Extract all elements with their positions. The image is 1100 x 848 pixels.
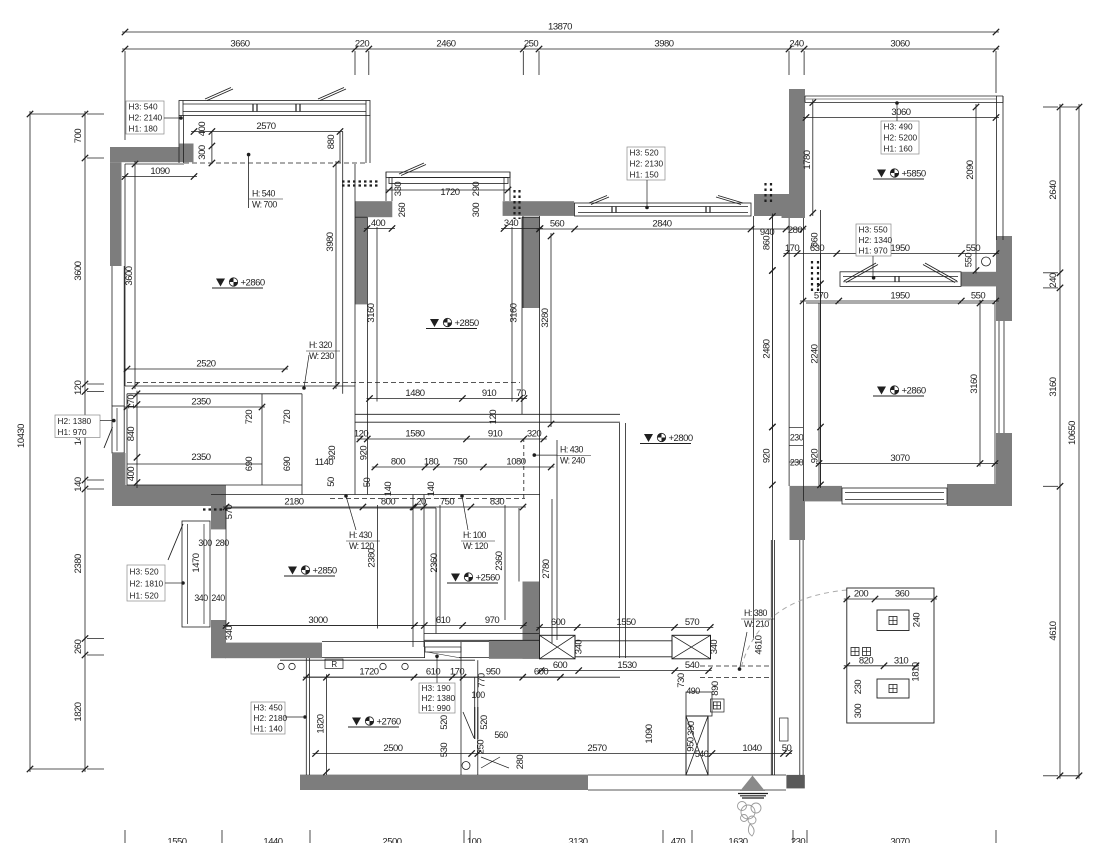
svg-text:170: 170 — [450, 667, 465, 678]
svg-text:3160: 3160 — [366, 303, 377, 322]
weak box — [877, 679, 909, 698]
svg-text:+5850: +5850 — [902, 169, 926, 180]
dashed guides entry — [700, 665, 772, 667]
svg-text:240: 240 — [912, 613, 923, 628]
label box B5 H3 550 — [856, 224, 891, 256]
svg-text:H1: 970: H1: 970 — [58, 427, 87, 437]
svg-text:H1: 180: H1: 180 — [129, 124, 158, 134]
casement flag room2 — [399, 163, 424, 174]
svg-text:230: 230 — [790, 433, 804, 443]
svg-text:910: 910 — [482, 388, 497, 399]
svg-text:700: 700 — [73, 129, 84, 144]
dim 1720/610/170/950/600 kitchen top — [303, 676, 563, 678]
svg-text:2840: 2840 — [652, 219, 671, 230]
dim 3980 room1 right inner — [335, 161, 337, 389]
study room outline — [435, 508, 437, 634]
wall dots bedroom3 northwest — [203, 508, 228, 510]
svg-text:920: 920 — [359, 446, 370, 461]
kitchen top lines — [280, 659, 475, 661]
svg-text:2350: 2350 — [191, 452, 210, 463]
east wall glazing lower — [998, 321, 1000, 433]
dim 860 rot left of 1950 window — [771, 214, 773, 274]
wall dining south — [489, 640, 539, 659]
dim 2350 x2 — [124, 406, 265, 408]
dim 860 rot right — [820, 210, 822, 270]
svg-text:610: 610 — [436, 615, 451, 626]
dim 170/840/400 left room — [136, 391, 138, 488]
svg-text:770: 770 — [477, 673, 488, 688]
wall left below window — [112, 453, 126, 502]
dim 820/310 panel — [844, 665, 919, 667]
bay window west bedroom3 — [182, 521, 210, 627]
svg-text:13870: 13870 — [548, 22, 572, 33]
dim 170/630/1950/550 line — [784, 253, 1000, 255]
svg-text:+2850: +2850 — [313, 566, 337, 577]
svg-text:2500: 2500 — [383, 743, 402, 754]
dim 2780 corridor lower — [551, 499, 553, 643]
door swing dashed arc — [741, 590, 847, 668]
dim 600/1550/570 — [537, 626, 714, 628]
svg-text:170: 170 — [785, 243, 800, 254]
svg-text:540: 540 — [685, 660, 700, 671]
svg-text:260: 260 — [397, 203, 408, 218]
svg-text:H1: 970: H1: 970 — [859, 246, 888, 256]
svg-text:910: 910 — [488, 429, 503, 440]
label box B7 H3 520 — [127, 565, 165, 601]
svg-text:400: 400 — [126, 467, 137, 482]
svg-text:H2: 1380: H2: 1380 — [422, 693, 456, 703]
svg-text:20: 20 — [416, 497, 426, 508]
svg-text:1550: 1550 — [616, 617, 635, 628]
dim 340 room2 right out — [501, 228, 543, 230]
svg-text:340: 340 — [709, 640, 720, 655]
svg-text:1720: 1720 — [440, 187, 459, 198]
svg-text:230: 230 — [790, 458, 804, 468]
small circle near east wall — [982, 257, 991, 266]
living north window 2840 — [575, 203, 752, 216]
svg-text:840: 840 — [126, 427, 137, 442]
kitchen west wall — [305, 658, 307, 775]
svg-text:W: 120: W: 120 — [463, 541, 488, 551]
label box B6 H2 1380 — [55, 415, 100, 438]
svg-text:W: 120: W: 120 — [349, 541, 374, 551]
right overall dimension line 10650 — [1078, 104, 1080, 779]
wall room2-living north — [503, 201, 574, 216]
wall room2 northwest corner — [355, 201, 392, 217]
dashed north boundary room1 — [184, 162, 366, 164]
svg-text:W: 700: W: 700 — [252, 200, 277, 210]
svg-text:H: 540: H: 540 — [252, 189, 276, 199]
mullion ticks room1 window — [252, 104, 254, 112]
svg-text:3160: 3160 — [509, 303, 520, 322]
dim 2480 corridor — [771, 268, 773, 431]
svg-text:1630: 1630 — [728, 837, 747, 844]
svg-text:4610: 4610 — [1048, 621, 1059, 640]
bay window room2 — [386, 172, 510, 178]
small circles bottom kitchen — [462, 762, 470, 770]
svg-text:330: 330 — [393, 182, 404, 197]
svg-text:610: 610 — [426, 667, 441, 678]
elevation marker kitchen +2760 — [352, 718, 361, 726]
svg-text:2380: 2380 — [73, 554, 84, 573]
svg-text:120: 120 — [354, 429, 369, 440]
wall right exterior lower — [996, 433, 1012, 486]
elevation marker study +2560 — [451, 574, 460, 582]
svg-text:520: 520 — [439, 715, 450, 730]
svg-text:280: 280 — [515, 755, 526, 770]
svg-text:1040: 1040 — [742, 743, 761, 754]
svg-text:H3: 520: H3: 520 — [130, 566, 159, 576]
elevation marker living +2800 — [644, 434, 653, 442]
wall south-east corner — [947, 484, 1012, 506]
R label box — [325, 659, 343, 669]
wall kitchen south strip — [300, 775, 588, 790]
svg-text:H: 430: H: 430 — [560, 445, 584, 455]
label box B10 H430 W240 — [533, 453, 537, 457]
label box B11 H430 W120 — [346, 496, 356, 530]
terrace north window — [805, 95, 1003, 97]
svg-text:540: 540 — [695, 749, 709, 759]
wall dots room1-room2 — [342, 180, 379, 182]
svg-text:3660: 3660 — [230, 39, 249, 50]
svg-text:+2800: +2800 — [669, 433, 693, 444]
column xbox right — [672, 635, 711, 659]
svg-text:400: 400 — [197, 122, 208, 137]
svg-text:W: 230: W: 230 — [309, 351, 334, 361]
dim 3060 terrace — [803, 117, 999, 119]
svg-text:720: 720 — [244, 410, 255, 425]
svg-text:170: 170 — [126, 395, 137, 410]
elevation marker room1 +2860 — [216, 279, 225, 287]
svg-text:140: 140 — [383, 482, 394, 497]
riser dots terrace — [811, 261, 813, 293]
riser dots living NE — [764, 183, 766, 205]
svg-text:3070: 3070 — [890, 453, 909, 464]
outer overall top dimension line 13870 — [122, 31, 999, 33]
svg-text:3980: 3980 — [325, 232, 336, 251]
door dots room2 east — [513, 190, 515, 219]
corridor east wall lines — [753, 216, 755, 640]
entry threshold — [588, 774, 786, 776]
svg-text:240: 240 — [1048, 273, 1059, 288]
label H540 W700 leader — [247, 153, 251, 157]
svg-text:3130: 3130 — [568, 837, 587, 844]
svg-text:H3: 190: H3: 190 — [422, 683, 451, 693]
dining west wall — [619, 423, 621, 658]
svg-text:950: 950 — [486, 667, 501, 678]
wall room2 east — [523, 217, 541, 308]
dim 920/230 pairs — [771, 424, 773, 488]
svg-text:3060: 3060 — [890, 39, 909, 50]
wall left of lower bedroom — [211, 620, 226, 658]
room1 outline — [125, 163, 184, 165]
svg-text:1440: 1440 — [263, 837, 282, 844]
svg-text:H: 100: H: 100 — [463, 530, 487, 540]
wall mid-left L horizontal — [112, 485, 226, 506]
svg-text:50: 50 — [326, 477, 337, 487]
svg-text:3280: 3280 — [540, 308, 551, 327]
svg-text:490: 490 — [686, 686, 700, 696]
svg-text:+2760: +2760 — [377, 717, 401, 728]
dim 2090 terrace east — [975, 104, 977, 274]
svg-text:200: 200 — [854, 589, 869, 600]
svg-text:2360: 2360 — [494, 551, 505, 570]
svg-text:520: 520 — [479, 715, 490, 730]
svg-text:120: 120 — [488, 410, 499, 425]
elevation marker bedroom3 +2850 — [288, 567, 297, 575]
svg-text:230: 230 — [853, 680, 864, 695]
svg-text:570: 570 — [685, 617, 700, 628]
entry corridor walls — [770, 540, 772, 775]
svg-text:290: 290 — [471, 182, 482, 197]
strong box — [877, 610, 909, 631]
dim 400 room2 left out — [364, 228, 395, 230]
svg-text:H2: 2180: H2: 2180 — [254, 713, 288, 723]
casement flag left room1 — [205, 88, 231, 100]
casement flags 1950 window — [844, 263, 876, 281]
svg-text:3000: 3000 — [308, 615, 327, 626]
svg-text:1470: 1470 — [191, 553, 202, 572]
svg-text:H2: 2130: H2: 2130 — [630, 159, 664, 169]
svg-text:2360: 2360 — [429, 553, 440, 572]
column xbox left — [540, 635, 576, 659]
svg-text:3600: 3600 — [124, 266, 135, 285]
entry arrow triangle — [740, 776, 765, 792]
wall stub below mid-left L — [211, 506, 226, 529]
dim 3160 bedroom4 east — [979, 300, 981, 467]
svg-text:1720: 1720 — [359, 667, 378, 678]
label box B9 H320 W230 leader — [302, 386, 306, 390]
wall terrace west jut — [782, 197, 806, 218]
svg-text:1820: 1820 — [315, 714, 326, 733]
svg-text:2500: 2500 — [382, 837, 401, 844]
svg-text:H: 320: H: 320 — [309, 340, 333, 350]
dim 570/1950/550 south of window — [800, 300, 999, 302]
svg-text:2350: 2350 — [191, 397, 210, 408]
dim 1090 room1 top-left — [122, 176, 197, 178]
dim 1820 kitchen — [325, 674, 327, 775]
svg-text:1080: 1080 — [506, 457, 525, 468]
dim 600/1530/540 — [538, 670, 712, 672]
svg-text:H1: 990: H1: 990 — [422, 703, 451, 713]
svg-text:920: 920 — [327, 446, 338, 461]
svg-text:H2: 1340: H2: 1340 — [859, 235, 893, 245]
svg-text:300: 300 — [197, 145, 208, 160]
svg-text:570: 570 — [224, 505, 235, 520]
left overall dimension line 10430 — [29, 111, 31, 772]
dim 3160 room2 right — [511, 227, 513, 402]
wall below bedroom4 south-west — [790, 501, 806, 540]
svg-text:100: 100 — [471, 690, 485, 700]
svg-text:10650: 10650 — [1067, 421, 1078, 445]
svg-text:2640: 2640 — [1048, 180, 1059, 199]
svg-text:560: 560 — [494, 730, 508, 740]
wall right of 1950 window — [961, 272, 996, 287]
svg-text:920: 920 — [761, 449, 772, 464]
label box B3 H3 520 — [627, 147, 665, 180]
svg-text:600: 600 — [534, 667, 549, 678]
svg-text:+2850: +2850 — [455, 318, 479, 329]
svg-text:1090: 1090 — [150, 166, 169, 177]
svg-text:250: 250 — [476, 740, 487, 755]
dim 560/2840 south of living window — [537, 228, 807, 230]
svg-text:260: 260 — [73, 639, 84, 654]
svg-text:H2: 1810: H2: 1810 — [130, 578, 164, 588]
left wall double lines — [111, 266, 113, 406]
svg-text:750: 750 — [440, 497, 455, 508]
label box B12 H100 W120 — [462, 496, 468, 530]
svg-text:600: 600 — [553, 660, 568, 671]
svg-text:100: 100 — [467, 837, 482, 844]
svg-text:1810: 1810 — [911, 662, 922, 681]
svg-text:310: 310 — [894, 655, 909, 666]
distribution panel outline — [847, 588, 934, 723]
svg-text:180: 180 — [424, 457, 439, 468]
svg-text:690: 690 — [282, 457, 293, 472]
svg-text:320: 320 — [527, 429, 542, 440]
TV label box — [711, 699, 725, 712]
svg-text:H1: 140: H1: 140 — [254, 724, 283, 734]
small left room outline — [127, 393, 302, 395]
mullion ticks living window — [611, 207, 613, 213]
bay window room1 side returns — [178, 116, 180, 164]
svg-text:2460: 2460 — [436, 39, 455, 50]
svg-text:3160: 3160 — [969, 374, 980, 393]
svg-text:550: 550 — [966, 243, 981, 254]
window 1950 — [840, 272, 961, 287]
cabinet near entry — [425, 647, 461, 652]
limen label — [851, 648, 859, 656]
dim 2380 bedroom3 — [377, 505, 379, 629]
dim 1780 terrace west — [812, 100, 814, 217]
dim 2360 study pair — [439, 505, 441, 620]
svg-text:1820: 1820 — [73, 702, 84, 721]
svg-text:800: 800 — [391, 457, 406, 468]
dim 3280 living west — [550, 233, 552, 427]
svg-text:50: 50 — [362, 478, 373, 488]
svg-text:830: 830 — [490, 497, 505, 508]
svg-text:240: 240 — [789, 39, 804, 50]
svg-text:970: 970 — [485, 615, 500, 626]
svg-text:1950: 1950 — [890, 243, 909, 254]
svg-text:470: 470 — [671, 837, 686, 844]
svg-text:70: 70 — [516, 388, 526, 399]
room2 outline — [366, 217, 368, 494]
svg-text:1530: 1530 — [617, 660, 636, 671]
label box B15 H3 190 — [436, 657, 438, 683]
bay window room1 frame — [179, 101, 370, 116]
casement flags living window — [589, 196, 607, 204]
bedroom4 outline — [819, 302, 995, 304]
dim 120/1580/910/320 hall — [357, 438, 547, 440]
dim 3070 bedroom4 south — [816, 463, 998, 465]
dim 3000 bedroom3 south — [223, 625, 418, 627]
svg-text:280: 280 — [788, 225, 803, 236]
terrace east glazing — [996, 96, 998, 240]
wardrobe boxes near entry — [686, 692, 712, 716]
svg-text:+2860: +2860 — [902, 386, 926, 397]
svg-text:3980: 3980 — [654, 39, 673, 50]
svg-text:3160: 3160 — [1048, 377, 1059, 396]
svg-text:820: 820 — [859, 655, 874, 666]
svg-text:120: 120 — [73, 380, 84, 395]
svg-text:H3: 550: H3: 550 — [859, 224, 888, 234]
svg-text:280: 280 — [215, 538, 229, 548]
wall lower bedroom south — [225, 643, 322, 659]
svg-text:720: 720 — [282, 410, 293, 425]
wall left vertical upper — [110, 162, 122, 266]
top dimension line tier2 3660/220/2460/250/3980/240/3060 — [122, 48, 999, 50]
right dimension tier2 2640/240/3160/4610 — [1059, 104, 1061, 779]
svg-text:2480: 2480 — [761, 339, 772, 358]
svg-text:H1: 520: H1: 520 — [130, 590, 159, 600]
dim 3160 room2 left — [376, 227, 378, 402]
svg-text:+2860: +2860 — [241, 278, 265, 289]
svg-text:750: 750 — [453, 457, 468, 468]
svg-text:H1: 160: H1: 160 — [884, 144, 913, 154]
svg-text:300: 300 — [471, 203, 482, 218]
svg-text:400: 400 — [371, 218, 386, 229]
svg-text:390: 390 — [686, 721, 697, 736]
wall entry south block — [786, 775, 804, 789]
svg-text:2520: 2520 — [196, 359, 215, 370]
beam lines between columns — [575, 640, 672, 642]
wall bedroom4 south-west — [790, 486, 843, 502]
svg-text:530: 530 — [439, 743, 450, 758]
svg-text:2570: 2570 — [256, 121, 275, 132]
svg-text:800: 800 — [381, 497, 396, 508]
svg-text:300: 300 — [853, 704, 864, 719]
svg-text:2090: 2090 — [965, 160, 976, 179]
svg-text:860: 860 — [810, 233, 821, 248]
svg-text:1090: 1090 — [644, 724, 655, 743]
svg-text:250: 250 — [524, 39, 539, 50]
svg-text:140: 140 — [73, 477, 84, 492]
svg-text:H3: 520: H3: 520 — [630, 148, 659, 158]
kitchen east wall — [460, 642, 462, 775]
svg-text:1580: 1580 — [405, 429, 424, 440]
label box B14 H3 450 — [251, 702, 285, 734]
dim 2570/400 under window — [191, 131, 343, 133]
wall living north-east — [754, 194, 805, 216]
plant symbol — [738, 802, 762, 837]
bottom dims 2500/2570/1040/50 — [313, 753, 793, 755]
svg-text:W: 240: W: 240 — [560, 456, 585, 466]
long dashed hall line — [127, 381, 520, 383]
dim 2180/800/20/750/830 — [223, 506, 526, 508]
dim 610/970 study south — [421, 625, 526, 627]
svg-text:3070: 3070 — [890, 837, 909, 844]
svg-text:4610: 4610 — [754, 635, 765, 654]
dashed hall line 2 — [330, 498, 525, 500]
svg-text:1550: 1550 — [167, 837, 186, 844]
kitchen door — [474, 677, 476, 707]
elevation marker room2 +2850 — [430, 319, 439, 327]
svg-text:H2: 1380: H2: 1380 — [58, 416, 92, 426]
svg-text:360: 360 — [895, 589, 910, 600]
living west lower line — [556, 440, 558, 640]
svg-text:H3: 490: H3: 490 — [884, 122, 913, 132]
svg-text:2180: 2180 — [284, 497, 303, 508]
svg-text:600: 600 — [551, 617, 566, 628]
dim 1480/910/70 room2 south — [367, 398, 528, 400]
dim 3600 room1 left inner — [134, 161, 136, 389]
svg-text:2570: 2570 — [587, 743, 606, 754]
svg-text:890: 890 — [710, 681, 721, 696]
svg-text:50: 50 — [782, 743, 792, 754]
svg-text:560: 560 — [550, 219, 565, 230]
wall room2 west — [355, 217, 367, 304]
